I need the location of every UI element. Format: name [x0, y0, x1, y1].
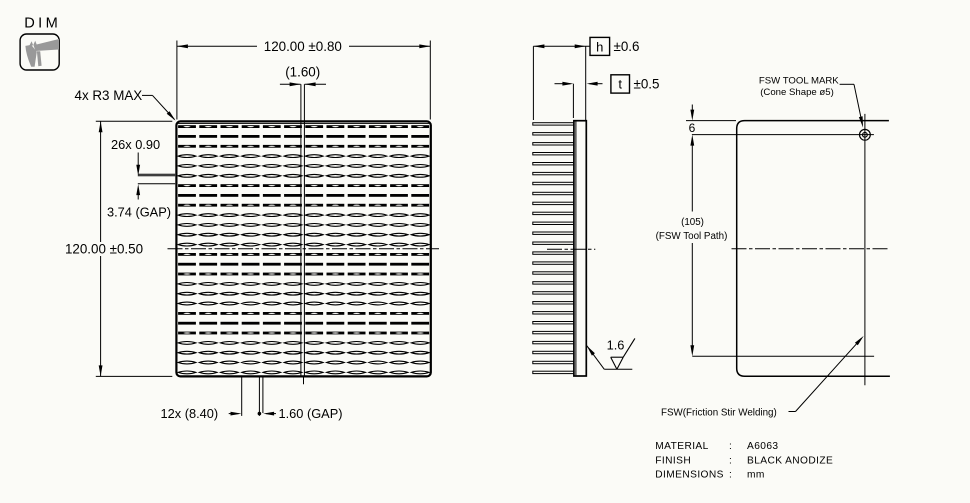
svg-text:±0.5: ±0.5 [634, 76, 660, 91]
svg-text:4x R3 MAX: 4x R3 MAX [75, 88, 143, 103]
dim 120.00 ±0.50 extension lines [96, 120, 173, 122]
back view top edge extension [686, 120, 736, 122]
svg-text:t: t [618, 77, 622, 92]
leader FSW TOOL MARK [840, 83, 854, 85]
svg-text:1.6: 1.6 [607, 337, 625, 352]
dim 105 line and arrows [691, 145, 693, 212]
dim h extension lines [532, 46, 534, 120]
front view horizontal centerline [168, 248, 440, 250]
FSW tool path vertical line [864, 114, 866, 385]
svg-text:±0.6: ±0.6 [614, 39, 640, 54]
dim origin dot [258, 412, 262, 416]
svg-text:DIMENSIONS: DIMENSIONS [655, 470, 724, 481]
leader 4x R3 MAX [142, 94, 153, 96]
dim t extension line [572, 84, 574, 118]
svg-text:120.00 ±0.80: 120.00 ±0.80 [264, 39, 342, 54]
DIM icon box [20, 34, 59, 70]
dim (1.60) arrows [280, 83, 301, 85]
surface finish symbol [611, 357, 617, 369]
svg-text::: : [729, 470, 732, 481]
svg-text:120.00 ±0.50: 120.00 ±0.50 [65, 242, 143, 257]
dim h line and arrows [533, 45, 590, 47]
FSW tool mark symbol [860, 129, 871, 140]
DIM icon caliper [25, 39, 59, 67]
back view centerline [732, 248, 889, 250]
leader FSW [789, 411, 796, 413]
FSW tool path top line [692, 134, 874, 136]
svg-text::: : [729, 455, 732, 466]
dim t box [611, 75, 630, 93]
svg-text:A6063: A6063 [747, 441, 778, 452]
FSW tool path bottom line [692, 355, 874, 357]
dim 3.74 arrow [136, 184, 140, 195]
dim 12x arrow [229, 413, 239, 415]
svg-text:h: h [596, 39, 603, 54]
dim 120.00 ±0.80 line and arrows [177, 45, 257, 47]
svg-text:DIM: DIM [24, 15, 61, 31]
bottom extension lines [241, 378, 243, 416]
dim 1.60 GAP arrow [263, 412, 274, 416]
svg-text:(Cone Shape ø5): (Cone Shape ø5) [760, 87, 834, 98]
svg-text:MATERIAL: MATERIAL [655, 441, 708, 452]
dim t arrows [555, 83, 571, 85]
side view base plate [574, 121, 586, 376]
front view top rim line [178, 122, 430, 124]
svg-text:FINISH: FINISH [655, 455, 691, 466]
svg-text:(105): (105) [681, 217, 704, 228]
svg-text:FSW(Friction Stir Welding): FSW(Friction Stir Welding) [661, 408, 777, 419]
dim 120.00 ±0.80 extension lines [176, 41, 178, 120]
side view centerline [547, 248, 595, 250]
dim 120.00 ±0.50 line and arrows [100, 121, 102, 242]
svg-text:(FSW Tool Path): (FSW Tool Path) [656, 231, 728, 242]
svg-text:1.60 (GAP): 1.60 (GAP) [279, 406, 343, 421]
side view fins (26x) [533, 123, 574, 374]
dim h box [590, 37, 610, 55]
fin edge extension lines [138, 173, 175, 175]
svg-text:(1.60): (1.60) [285, 64, 320, 79]
svg-text:BLACK ANODIZE: BLACK ANODIZE [747, 455, 833, 466]
back view plate outline [737, 121, 890, 377]
front view center gap lines [300, 84, 302, 376]
svg-text:mm: mm [747, 470, 765, 481]
svg-text:12x (8.40): 12x (8.40) [161, 406, 219, 421]
svg-text:FSW TOOL MARK: FSW TOOL MARK [759, 76, 839, 87]
dim 6 arrows [691, 105, 693, 111]
svg-text:26x 0.90: 26x 0.90 [111, 137, 160, 152]
svg-text:3.74 (GAP): 3.74 (GAP) [107, 205, 171, 220]
svg-text:6: 6 [689, 121, 696, 135]
dim 26x 0.90 arrow [137, 153, 139, 166]
side view fin root line [575, 122, 577, 376]
svg-text::: : [729, 441, 732, 452]
surface finish leader arrow [587, 346, 595, 356]
front view plate outline [176, 121, 430, 376]
front view fin rows (26x) [178, 125, 429, 374]
